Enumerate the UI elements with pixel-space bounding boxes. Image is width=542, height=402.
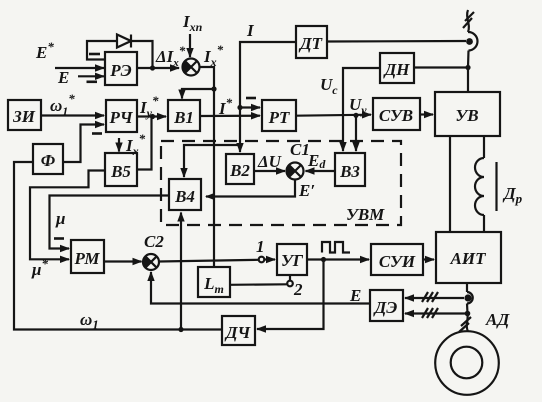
wire Uc from DN to B3 xyxy=(343,68,380,151)
node I to RT branch xyxy=(237,105,242,110)
block B3 (В3) xyxy=(335,153,365,186)
node Ix* branch xyxy=(211,86,216,91)
wire Lm output to contact 2 xyxy=(230,283,287,286)
svg-text:E: E xyxy=(57,68,69,87)
svg-text:Iх*: Iх* xyxy=(203,42,224,69)
svg-text:В3: В3 xyxy=(339,162,360,181)
node Uy tap xyxy=(353,113,358,118)
wire B3 to C1 xyxy=(306,170,336,172)
block DE (ДЭ) xyxy=(370,290,403,321)
wire branch into B1 top xyxy=(182,89,214,99)
wire RCH to B1 xyxy=(137,115,166,117)
block RE (РЭ) xyxy=(105,52,137,85)
wire I branch into RT upper input xyxy=(240,106,260,108)
svg-text:Lm: Lm xyxy=(203,274,224,296)
svg-text:В4: В4 xyxy=(174,187,195,206)
svg-text:РЧ: РЧ xyxy=(108,108,133,127)
summing junction C2 xyxy=(143,254,159,270)
block DT (ДТ) xyxy=(296,26,327,58)
wire B1 to RT xyxy=(200,115,260,118)
minus sign below E input xyxy=(87,81,98,84)
hatch marks lower DE wire xyxy=(422,308,438,318)
svg-text:РТ: РТ xyxy=(268,108,290,127)
block B1 (В1) xyxy=(168,100,200,131)
svg-text:2: 2 xyxy=(293,280,303,299)
block ZI (ЗИ) xyxy=(8,100,41,130)
svg-text:В2: В2 xyxy=(229,161,250,180)
block F (Ф) xyxy=(33,144,63,174)
node UG output tap xyxy=(321,257,326,262)
wire B4 output mu to RM xyxy=(50,196,170,249)
block UV (УВ) xyxy=(435,92,500,136)
block B4 (В4) xyxy=(169,179,201,210)
break marks on motor wire xyxy=(459,317,471,332)
wire C1 output E' to B4 xyxy=(206,180,295,197)
wire UV to AIT left xyxy=(449,136,451,232)
wire motor terminal to DE lower xyxy=(405,304,468,314)
wire UG output down to DCH xyxy=(257,260,324,330)
svg-text:СУВ: СУВ xyxy=(379,106,413,125)
minus sign at RM upper input xyxy=(54,237,64,240)
svg-text:Ф: Ф xyxy=(41,151,56,170)
wire C2 output to contact 1 xyxy=(159,260,258,262)
node DN tap xyxy=(465,65,470,70)
wire DN input xyxy=(414,66,468,68)
wire RE feedback loop xyxy=(87,41,153,68)
network connection hatch symbol xyxy=(463,10,474,32)
svg-text:ω1*: ω1* xyxy=(50,91,75,118)
wire E input xyxy=(78,75,104,77)
node omega1 to B4 xyxy=(178,327,183,332)
contact 1 circle xyxy=(259,257,265,263)
wire Ixp input arrow xyxy=(189,34,191,57)
wire SUV to UV xyxy=(420,113,433,115)
svg-text:Др: Др xyxy=(502,184,523,206)
block AIT (АИТ) xyxy=(436,232,501,283)
wire RM to C2 xyxy=(104,260,142,262)
svg-text:В5: В5 xyxy=(110,162,131,181)
wire Ix* input arrow into B5 xyxy=(118,138,120,152)
svg-text:μ: μ xyxy=(55,209,65,228)
wire DT to network terminal xyxy=(327,40,466,43)
svg-text:ΔU: ΔU xyxy=(257,152,282,171)
wire Ix* main vertical to Lm xyxy=(200,67,215,267)
wire ZI to RCH xyxy=(41,114,104,116)
square pulse symbol xyxy=(322,242,350,253)
block DN (ДН) xyxy=(380,53,414,83)
svg-text:E*: E* xyxy=(35,39,54,62)
minus sign at RCH input xyxy=(92,132,102,135)
hatch marks upper DE wire xyxy=(422,292,438,302)
wire I branch left into B4 top xyxy=(184,145,240,177)
svg-text:С1: С1 xyxy=(290,140,310,159)
svg-text:I: I xyxy=(246,21,255,40)
wire terminal down to motor with break xyxy=(467,314,468,332)
wire E* input xyxy=(55,67,104,69)
diode VD1 xyxy=(117,35,131,48)
wire AIT bottom to motor terminal xyxy=(466,283,468,292)
block B2 (В2) xyxy=(226,154,254,184)
block SUI (СУИ) xyxy=(371,244,423,275)
summing junction C1 xyxy=(287,163,304,180)
block RT (РТ) xyxy=(262,100,296,131)
svg-text:РЭ: РЭ xyxy=(109,61,131,80)
motor AD outer circle xyxy=(435,331,499,395)
wire RE output to node xyxy=(137,67,179,69)
block RM (РМ) xyxy=(71,240,104,273)
svg-text:СУИ: СУИ xyxy=(379,252,416,271)
svg-text:μ*: μ* xyxy=(31,256,48,279)
wire RT output to SUV xyxy=(296,115,371,116)
svg-text:УВ: УВ xyxy=(455,106,478,125)
motor AD inner circle xyxy=(451,347,483,379)
node Iy junction xyxy=(150,114,155,119)
svg-text:РМ: РМ xyxy=(73,249,100,268)
wire Uy down to B3 xyxy=(355,115,357,151)
block UG (УГ) xyxy=(277,244,307,275)
node lower tap xyxy=(465,311,471,317)
wire motor terminal to DE upper xyxy=(405,297,464,299)
svg-text:АД: АД xyxy=(485,310,511,329)
svg-text:ЗИ: ЗИ xyxy=(12,107,36,126)
svg-text:ДТ: ДТ xyxy=(298,34,323,53)
svg-text:С2: С2 xyxy=(144,232,164,251)
wire SUI to AIT xyxy=(423,258,434,260)
wire omega1 feedback DCH to F xyxy=(14,162,222,330)
node RE output junction xyxy=(150,65,155,70)
block SUV (СУВ) xyxy=(373,98,420,130)
block RCH (РЧ) xyxy=(106,100,137,132)
svg-text:АИТ: АИТ xyxy=(450,249,487,268)
contact 2 circle xyxy=(287,281,293,287)
dashed UVM computer box xyxy=(161,141,401,225)
wire UG bottom to contact 2 xyxy=(289,275,291,281)
svg-text:ΔIх*: ΔIх* xyxy=(155,43,186,69)
svg-text:E′: E′ xyxy=(298,181,315,200)
svg-text:Iхп: Iхп xyxy=(182,12,203,34)
wire mu* input path to RM and B5 xyxy=(30,171,105,260)
svg-text:E: E xyxy=(349,286,361,305)
svg-text:1: 1 xyxy=(256,237,265,256)
wire contact 1 to UG xyxy=(265,258,276,260)
svg-text:ДН: ДН xyxy=(383,60,411,79)
wire network down to UV xyxy=(467,51,470,93)
wire E from DE to C2 xyxy=(151,272,370,304)
svg-text:ДЭ: ДЭ xyxy=(373,298,398,317)
wire UG output to SUI xyxy=(307,258,369,260)
svg-text:I*: I* xyxy=(218,95,233,118)
summing junction Ix (node 1) xyxy=(183,59,200,76)
svg-text:В1: В1 xyxy=(173,108,194,127)
block B5 (В5) xyxy=(105,153,137,186)
wire B2 to C1 xyxy=(254,170,285,172)
svg-text:ДЧ: ДЧ xyxy=(224,323,252,342)
wire I from DT down xyxy=(240,42,296,145)
minus sign at RE feedback input xyxy=(89,53,100,56)
svg-text:ω1: ω1 xyxy=(80,310,99,332)
motor terminal node xyxy=(464,292,472,304)
svg-text:Uс: Uс xyxy=(320,75,338,97)
wire F output to RCH minus input xyxy=(63,125,104,163)
svg-text:Ed: Ed xyxy=(307,151,326,171)
wire B5 output up to Iy node xyxy=(137,117,152,170)
wire I branch down into B2 xyxy=(239,145,241,152)
minus sign at RT upper input xyxy=(246,97,256,100)
block Lm xyxy=(198,267,230,297)
wire omega1 up into B4 bottom xyxy=(180,213,182,330)
block DCH (ДЧ) xyxy=(222,316,255,345)
choke core bar xyxy=(495,162,497,211)
wire UV to AIT right with choke xyxy=(475,136,484,232)
network terminal node xyxy=(466,32,477,51)
svg-text:УВМ: УВМ xyxy=(346,205,385,224)
svg-text:УГ: УГ xyxy=(281,251,304,270)
